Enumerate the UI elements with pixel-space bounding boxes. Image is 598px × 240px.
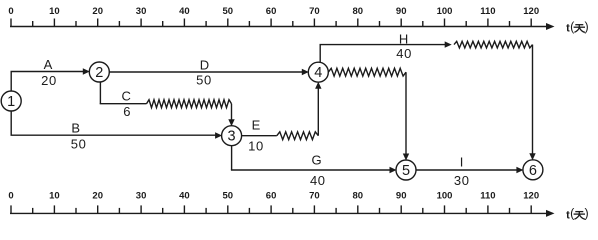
svg-text:70: 70: [309, 6, 320, 17]
svg-text:40: 40: [396, 46, 412, 61]
svg-text:90: 90: [396, 6, 407, 17]
svg-text:10: 10: [49, 190, 60, 201]
svg-text:6: 6: [123, 104, 131, 119]
svg-text:50: 50: [223, 6, 234, 17]
svg-text:1: 1: [7, 94, 15, 110]
svg-text:10: 10: [49, 6, 60, 17]
svg-text:70: 70: [309, 190, 320, 201]
svg-text:3: 3: [228, 129, 236, 145]
svg-text:60: 60: [266, 190, 277, 201]
svg-text:A: A: [44, 57, 53, 72]
svg-text:G: G: [311, 153, 321, 168]
svg-text:120: 120: [523, 6, 539, 17]
svg-text:0: 0: [8, 6, 13, 17]
svg-text:60: 60: [266, 6, 277, 17]
svg-text:): ): [585, 20, 589, 34]
svg-text:6: 6: [529, 163, 537, 179]
svg-text:H: H: [399, 32, 408, 47]
svg-text:100: 100: [437, 6, 453, 17]
svg-text:20: 20: [92, 190, 103, 201]
svg-text:0: 0: [8, 190, 13, 201]
svg-text:20: 20: [92, 6, 103, 17]
svg-text:110: 110: [480, 6, 495, 17]
svg-text:I: I: [460, 154, 464, 169]
svg-text:30: 30: [136, 6, 147, 17]
svg-text:): ): [585, 207, 589, 221]
svg-text:50: 50: [196, 73, 212, 88]
svg-text:E: E: [252, 118, 261, 133]
svg-text:80: 80: [353, 190, 364, 201]
svg-text:30: 30: [136, 190, 147, 201]
svg-text:120: 120: [523, 190, 539, 201]
svg-text:C: C: [122, 89, 131, 104]
svg-text:110: 110: [480, 190, 495, 201]
svg-text:5: 5: [402, 163, 410, 179]
svg-text:40: 40: [179, 190, 190, 201]
svg-text:20: 20: [41, 73, 57, 88]
svg-text:10: 10: [248, 139, 264, 154]
svg-text:2: 2: [95, 65, 103, 81]
svg-text:30: 30: [454, 173, 470, 188]
svg-text:50: 50: [71, 137, 87, 152]
svg-text:50: 50: [223, 190, 234, 201]
svg-text:40: 40: [310, 173, 326, 188]
svg-text:D: D: [200, 58, 209, 73]
svg-text:40: 40: [179, 6, 190, 17]
svg-text:100: 100: [437, 190, 453, 201]
svg-text:90: 90: [396, 190, 407, 201]
svg-text:80: 80: [353, 6, 364, 17]
svg-text:4: 4: [314, 65, 322, 81]
svg-text:B: B: [71, 120, 80, 135]
